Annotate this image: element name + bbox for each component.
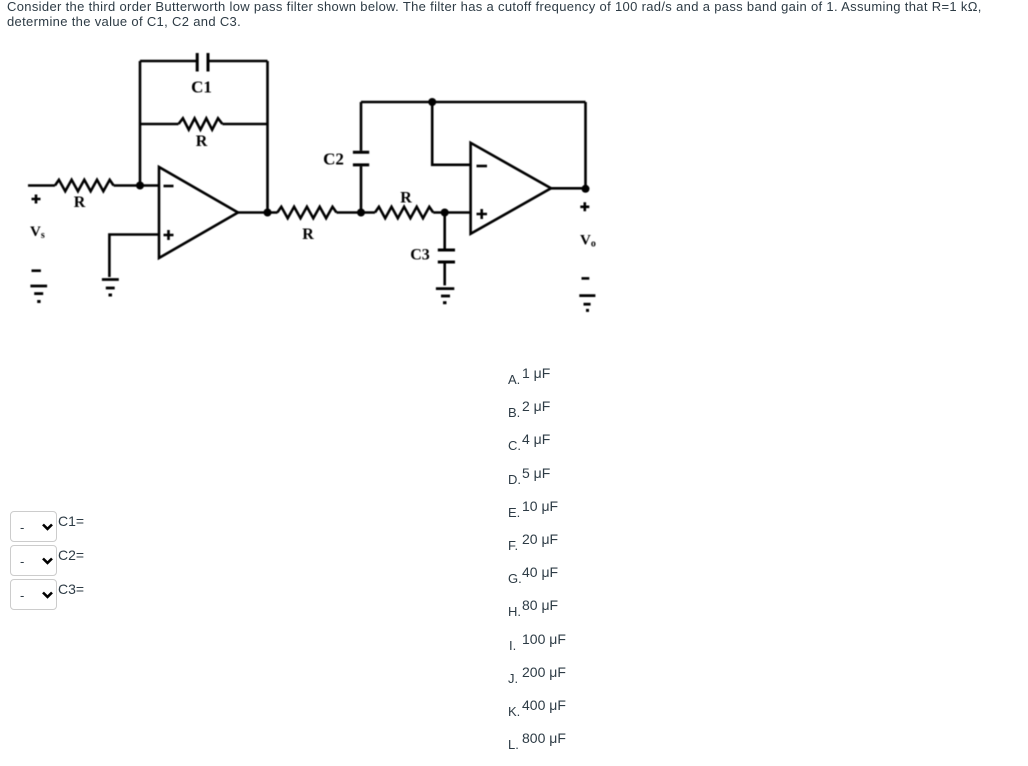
U2 plus input sign [477, 209, 488, 219]
question text [7, 0, 982, 30]
wire: U2 output [551, 187, 586, 190]
ground (Vo) [579, 296, 595, 311]
capacitor C3 [438, 213, 455, 286]
svg-text:R: R [196, 133, 208, 150]
wire: top feedback to C1 left plate [140, 60, 196, 63]
capacitor C1 [197, 53, 208, 72]
label R (series 1) [302, 226, 314, 243]
wire: C1 right plate to right vertical [209, 60, 268, 63]
wire: series1 to C2 node [337, 211, 376, 214]
label C1 [191, 78, 212, 97]
U1 minus input sign [164, 185, 174, 188]
op-amp U1 [159, 167, 238, 258]
svg-text:R: R [74, 194, 86, 211]
resistor R (feedback) [179, 118, 223, 129]
wire: left vertical of feedback loop [139, 61, 142, 186]
ground (C3) [436, 289, 454, 303]
node D (C3 junction) [441, 209, 449, 217]
dropdown C1 [10, 511, 57, 542]
wire: feedback R right lead [222, 123, 267, 126]
node B (U1 output junction) [264, 209, 272, 217]
wire: non-inverting input to ground [109, 235, 159, 278]
dropdown C2 [10, 545, 57, 576]
label C3 [410, 247, 430, 264]
label R (input series) [74, 194, 86, 211]
resistor R (input series) [55, 180, 114, 191]
wire: resistor to inverting input node [114, 184, 159, 187]
label R (feedback) [196, 133, 208, 150]
wire: series2 to non-inverting input of U2 [433, 211, 470, 214]
wire: U1 output [238, 211, 278, 214]
wire: right vertical of feedback loop [266, 61, 269, 213]
op-amp U2 [471, 143, 551, 234]
capacitor C2 [353, 102, 369, 213]
svg-text:C2: C2 [323, 150, 344, 169]
wire: output feedback vertical [584, 102, 587, 189]
label minus (Vs negative terminal) [32, 269, 41, 272]
node A (inverting input junction) [136, 182, 144, 190]
svg-text:Vo: Vo [580, 233, 596, 250]
answer options [508, 373, 520, 386]
svg-text:Vs: Vs [30, 224, 45, 241]
svg-text:R: R [302, 226, 314, 243]
wire: U2 top feedback [361, 101, 586, 104]
wire: feedback junction down to U2 inverting input [432, 102, 470, 165]
label C3= [58, 581, 84, 597]
svg-text:C1: C1 [191, 78, 212, 97]
dropdown C3 [10, 579, 57, 610]
label + (Vo positive terminal) [580, 202, 589, 211]
circuit schematic [0, 0, 650, 330]
resistor R (series 2) [375, 207, 433, 218]
U2 minus input sign [477, 165, 488, 168]
label C2= [58, 547, 84, 563]
label Vs [30, 224, 45, 241]
node F (output junction) [582, 185, 590, 193]
label C2 [323, 150, 344, 169]
wire: input source to resistor R (input) [28, 184, 55, 187]
svg-text:C3: C3 [410, 247, 430, 264]
wire: feedback R left lead [140, 123, 179, 126]
svg-text:R: R [400, 190, 412, 207]
node C (C2 junction) [357, 209, 365, 217]
U1 plus input sign [164, 230, 174, 240]
label R (series 2) [400, 190, 412, 207]
label minus (Vo negative terminal) [582, 277, 590, 280]
ground (U1 non-inverting) [102, 280, 119, 296]
label + (Vs positive terminal) [32, 195, 41, 204]
resistor R (series 1) [277, 207, 336, 218]
label C1= [58, 513, 84, 529]
ground (Vs) [30, 286, 47, 302]
node E (feedback junction) [428, 98, 436, 106]
label Vo [580, 233, 596, 250]
